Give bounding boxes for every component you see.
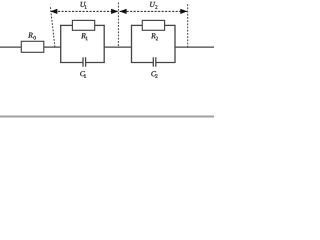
label R2: [151, 33, 158, 40]
wire block2 bottom branch right: [156, 62, 176, 64]
label U1: [81, 2, 87, 9]
node B extension line (middle, dashed): [117, 3, 119, 48]
wire R0 to block1: [44, 46, 61, 48]
wire block1 top branch right: [95, 24, 105, 26]
wire between block1 and block2: [104, 46, 132, 48]
U1 dimension arrow: [50, 9, 118, 14]
node C extension line (right, dashed): [187, 4, 189, 47]
wire block1 top branch left: [60, 24, 72, 26]
node A extension line (left, dashed): [50, 7, 55, 47]
wire block2 top branch right: [165, 24, 176, 26]
label R1: [81, 33, 88, 40]
label R0: [28, 33, 36, 40]
label C2: [151, 71, 157, 78]
wire block2 left edge: [131, 25, 133, 63]
wire block1 right edge: [103, 25, 105, 63]
wire block2 right edge: [174, 25, 176, 63]
resistor R1: [72, 20, 94, 30]
label U2: [150, 2, 157, 9]
resistor R2: [142, 20, 164, 30]
capacitor C2: [153, 57, 156, 66]
wire block2 bottom branch left: [131, 62, 153, 64]
wire block1 left edge: [60, 25, 62, 63]
wire left lead: [0, 46, 21, 48]
resistor R0: [21, 41, 44, 52]
wire block1 bottom branch right: [86, 62, 105, 64]
U2 dimension arrow: [119, 9, 187, 14]
bottom rule: [0, 116, 214, 118]
wire block2 top branch left: [131, 24, 142, 26]
label C1: [80, 71, 86, 78]
capacitor C1: [83, 57, 86, 66]
wire right lead: [175, 46, 215, 48]
wire block1 bottom branch left: [60, 62, 83, 64]
